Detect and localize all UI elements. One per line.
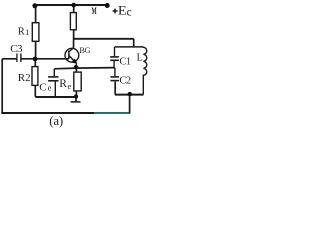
svg-text:2: 2 xyxy=(25,73,30,84)
svg-text:C1: C1 xyxy=(119,56,131,67)
svg-text:E: E xyxy=(118,2,127,17)
svg-text:BG: BG xyxy=(79,46,90,55)
svg-text:L: L xyxy=(137,52,143,63)
svg-text:1: 1 xyxy=(25,28,29,37)
svg-text:C: C xyxy=(39,81,46,93)
svg-text:C3: C3 xyxy=(10,43,23,55)
svg-text:C2: C2 xyxy=(119,75,131,86)
svg-text:(a): (a) xyxy=(49,114,63,128)
svg-text:M: M xyxy=(92,7,97,17)
svg-text:e: e xyxy=(68,81,72,91)
svg-text:c: c xyxy=(127,6,132,18)
svg-text:e: e xyxy=(48,83,52,93)
svg-text:R: R xyxy=(18,27,25,38)
svg-text:R: R xyxy=(59,78,67,90)
